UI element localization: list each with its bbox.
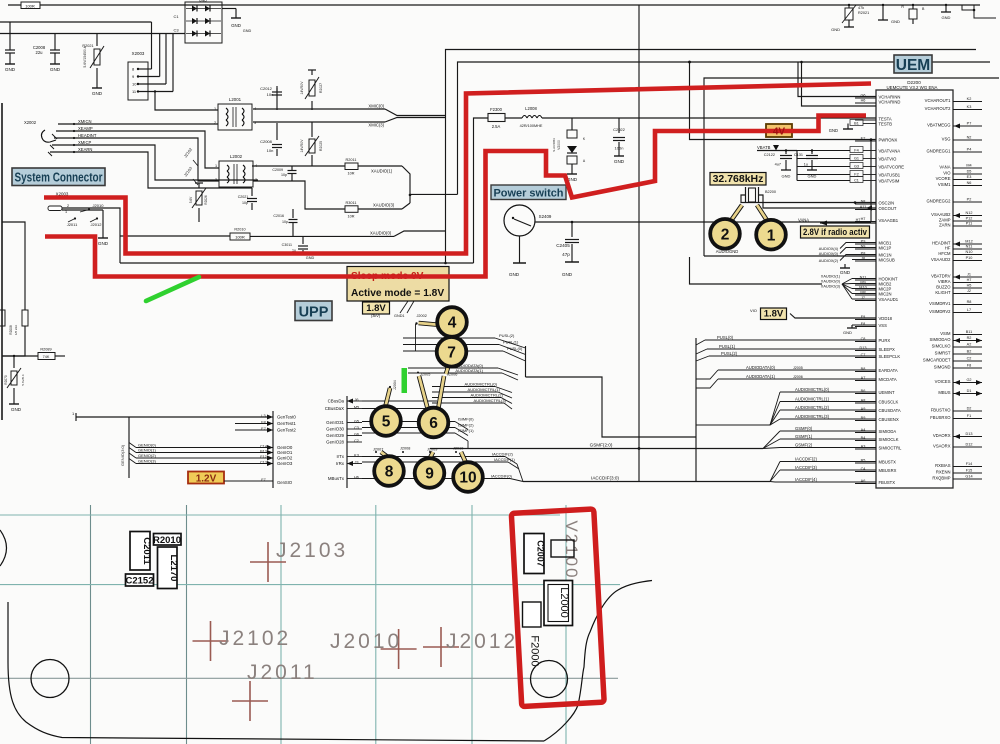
svg-text:RXBIAS: RXBIAS: [935, 463, 951, 468]
svg-text:VCHAROUT1: VCHAROUT1: [925, 98, 951, 103]
svg-text:N12: N12: [966, 211, 973, 215]
svg-text:G2: G2: [966, 378, 971, 382]
svg-text:UEMCUTE V3.2 WG ENA: UEMCUTE V3.2 WG ENA: [887, 85, 938, 90]
svg-text:1/8 22A: 1/8 22A: [14, 325, 18, 335]
wire IACCDIF rows upp: [362, 456, 505, 458]
svg-text:G1: G1: [854, 157, 859, 161]
svg-text:SIMRST: SIMRST: [935, 350, 951, 355]
svg-text:L7: L7: [967, 308, 971, 312]
svg-text:CBusDa: CBusDa: [328, 399, 345, 404]
svg-text:10p: 10p: [281, 173, 287, 177]
bus path to UEM side: [526, 377, 697, 437]
pcb board outline right curve: [544, 581, 652, 742]
pcb board outline bottom left: [8, 602, 544, 741]
ground x946: [945, 5, 947, 12]
svg-text:AUDIOX(4): AUDIOX(4): [819, 247, 839, 251]
pcb testpoint J2012: [423, 646, 459, 648]
svg-text:GND: GND: [243, 29, 252, 33]
svg-text:B1: B1: [854, 122, 859, 126]
svg-text:F2000: F2000: [529, 635, 541, 666]
svg-text:22u: 22u: [36, 50, 44, 55]
svg-text:SIMIODAO: SIMIODAO: [930, 337, 952, 342]
mic stub wires: [852, 242, 876, 244]
svg-text:CBUSENX: CBUSENX: [879, 417, 899, 422]
svg-text:GND: GND: [829, 128, 838, 133]
pcb part L2170: [158, 547, 178, 589]
svg-text:IACCDIF(0): IACCDIF(0): [491, 474, 513, 479]
junction rail62: [688, 61, 691, 64]
svg-text:J2103: J2103: [276, 539, 348, 562]
svg-text:OSC2IN: OSC2IN: [879, 200, 895, 205]
svg-text:C2122: C2122: [764, 153, 775, 157]
svg-text:VSG: VSG: [942, 136, 951, 141]
highlight red rounded zone: [511, 509, 604, 707]
svg-text:GSMF(2:0): GSMF(2:0): [590, 443, 613, 448]
svg-text:GND: GND: [942, 15, 951, 20]
svg-text:GenIO28: GenIO28: [326, 440, 344, 445]
ground stub x883: [882, 5, 884, 20]
svg-text:6: 6: [429, 415, 438, 432]
svg-text:GND: GND: [231, 23, 241, 28]
svg-text:XAUDIO(3): XAUDIO(3): [373, 203, 395, 208]
svg-text:SIMIOCTRL: SIMIOCTRL: [879, 445, 902, 450]
svg-text:CBUSCLK: CBUSCLK: [879, 399, 899, 404]
svg-text:VBATVIO: VBATVIO: [879, 156, 898, 161]
svg-text:VBATDRV: VBATDRV: [931, 273, 951, 278]
wire net XAUDIO1: [252, 165, 345, 167]
varistor R2070: [13, 356, 15, 368]
svg-text:C131: C131: [794, 153, 803, 157]
svg-text:C3011: C3011: [282, 243, 292, 247]
svg-text:IACCDIF(1): IACCDIF(1): [494, 457, 516, 462]
wire rail mid right y62: [458, 62, 991, 194]
svg-text:OSCOUT: OSCOUT: [879, 206, 897, 211]
svg-text:2: 2: [67, 204, 69, 208]
svg-text:J2009: J2009: [427, 448, 437, 452]
pcb part C2152: [126, 574, 154, 586]
wire VSS and ground: [852, 324, 876, 326]
svg-text:R3011: R3011: [346, 201, 357, 205]
svg-text:VSS: VSS: [879, 323, 888, 328]
svg-text:J2004: J2004: [393, 380, 397, 390]
svg-text:1u: 1u: [804, 163, 808, 167]
svg-text:P10: P10: [966, 256, 973, 260]
svg-text:7: 7: [447, 344, 456, 361]
svg-text:V2000: V2000: [557, 140, 561, 150]
svg-text:1: 1: [215, 164, 217, 168]
svg-text:10: 10: [132, 82, 137, 87]
label UEM: [894, 55, 932, 73]
svg-text:C2011: C2011: [141, 537, 152, 565]
svg-text:5.6V: 5.6V: [189, 196, 193, 203]
svg-text:RXENN: RXENN: [936, 469, 951, 474]
svg-text:FBUSTX: FBUSTX: [879, 480, 896, 485]
pcb part L2000: [544, 581, 573, 626]
wire GSMF trunk: [430, 448, 763, 450]
svg-text:Active mode = 1.8V: Active mode = 1.8V: [351, 288, 444, 299]
svg-text:F4: F4: [854, 149, 858, 153]
svg-text:C2007: C2007: [536, 540, 546, 567]
svg-text:XMIC(0): XMIC(0): [368, 104, 384, 109]
pcb testpoint J2011: [232, 700, 268, 702]
fuse F2300: [488, 114, 505, 122]
svg-text:KLIGHT: KLIGHT: [935, 290, 951, 295]
pcb part R2010: [154, 534, 182, 546]
pcb testpoint J2102: [193, 640, 229, 642]
inductor L2008: [522, 116, 527, 119]
uem outer boundary box: [704, 78, 999, 256]
transformer L2001: [218, 104, 252, 130]
svg-text:GENIO(1): GENIO(1): [138, 448, 156, 453]
svg-text:L2002: L2002: [230, 154, 243, 159]
svg-text:L2000: L2000: [558, 587, 570, 618]
svg-text:5: 5: [382, 414, 391, 431]
capacitor C2022 100n: [618, 118, 620, 133]
capacitor C2016 10p coupling: [292, 209, 294, 218]
svg-text:GNDREGG1: GNDREGG1: [927, 148, 952, 153]
capacitor C2122 4u7: [785, 151, 787, 155]
svg-text:VSAAUB2: VSAAUB2: [931, 212, 951, 217]
svg-text:1: 1: [65, 210, 67, 214]
svg-text:SIMGND: SIMGND: [934, 364, 951, 369]
svg-text:10R: 10R: [348, 172, 355, 176]
svg-text:R2089: R2089: [40, 348, 51, 352]
svg-text:TESTB: TESTB: [879, 121, 893, 126]
svg-text:2: 2: [215, 178, 217, 182]
svg-text:N6: N6: [967, 181, 972, 185]
svg-text:B11: B11: [966, 330, 972, 334]
svg-text:UEM: UEM: [896, 57, 930, 74]
svg-text:GSMF(2): GSMF(2): [795, 442, 813, 447]
svg-text:J2007: J2007: [373, 448, 383, 452]
label UPP: [295, 301, 332, 321]
ic UEM D2200 body: [876, 90, 953, 488]
svg-text:4V: 4V: [773, 127, 786, 138]
svg-text:10n: 10n: [267, 92, 274, 97]
svg-text:D1: D1: [967, 389, 972, 393]
svg-text:B13: B13: [260, 450, 267, 454]
ic UPP left edge: [346, 396, 348, 488]
pcb part C2011: [130, 532, 150, 571]
pcb testpoint J2103: [250, 561, 286, 563]
svg-text:AUDIOMICTRL(0): AUDIOMICTRL(0): [465, 382, 498, 387]
wire rail 3 left: [0, 33, 185, 35]
varistor R2025: [311, 122, 313, 137]
svg-text:SLEEPCLK: SLEEPCLK: [879, 354, 901, 359]
wire XAUDIO bus at UEM: [690, 257, 823, 284]
EMI diode array V2001: [185, 2, 222, 43]
svg-text:AUDIODATA(0): AUDIODATA(0): [746, 365, 776, 370]
svg-text:32.768kHz: 32.768kHz: [713, 173, 764, 185]
svg-text:F7: F7: [261, 478, 265, 482]
svg-text:1.8V: 1.8V: [764, 309, 784, 320]
svg-text:FBUSRXO: FBUSRXO: [930, 415, 951, 420]
highlight green slash: [146, 277, 199, 301]
svg-text:J1: J1: [967, 273, 971, 277]
svg-text:GND: GND: [509, 272, 520, 277]
wire VCHARINN step: [798, 62, 876, 97]
svg-text:M4: M4: [966, 164, 971, 168]
svg-text:A: A: [583, 159, 586, 163]
svg-text:R2010: R2010: [153, 535, 181, 546]
svg-text:VBATB: VBATB: [757, 145, 771, 150]
svg-text:MIC1P: MIC1P: [879, 245, 892, 250]
ground at diode array: [222, 8, 236, 10]
svg-text:J2010: J2010: [93, 203, 105, 208]
svg-text:IrTx: IrTx: [336, 454, 344, 459]
transformer L2002: [219, 161, 253, 187]
svg-text:PUSL(2): PUSL(2): [499, 333, 515, 338]
highlight red trace 1: [44, 84, 871, 254]
svg-text:MICSUB: MICSUB: [879, 257, 895, 262]
wire vertical x689 to PWRONX: [690, 62, 877, 140]
bus AUDIOMICTRL rows to UEM: [780, 391, 876, 393]
svg-text:ISIMF(2): ISIMF(2): [458, 423, 474, 428]
svg-text:R2: R2: [967, 336, 972, 340]
wire VCHARIND step: [802, 62, 877, 106]
svg-text:IACCDIF(2): IACCDIF(2): [492, 452, 514, 457]
callout circle 6: [419, 376, 428, 410]
svg-text:R: R: [901, 5, 904, 9]
wire ISIMF rows: [362, 421, 455, 423]
svg-text:ISIMF(1): ISIMF(1): [458, 428, 474, 433]
wire L2001 pin1 to X2002: [155, 92, 218, 111]
svg-text:F2300: F2300: [490, 107, 503, 112]
svg-text:VSAORX: VSAORX: [933, 443, 951, 448]
svg-text:1: 1: [767, 227, 776, 244]
crystal B2200 32.768kHz: [749, 188, 756, 202]
svg-text:PWRONX: PWRONX: [879, 137, 898, 142]
highlight red trace 2: [45, 116, 866, 277]
wire GenIO rows: [129, 443, 136, 448]
svg-text:P12: P12: [966, 217, 973, 221]
svg-text:GND1: GND1: [394, 314, 405, 318]
svg-text:ISIMF(0): ISIMF(0): [458, 417, 474, 422]
wire battery rail left edge: [1, 103, 3, 420]
wire AUDIODATA rows UPP: [408, 367, 498, 369]
svg-text:R2027: R2027: [319, 83, 323, 93]
svg-text:MBUS: MBUS: [938, 390, 950, 395]
svg-text:X2003: X2003: [132, 51, 145, 56]
svg-text:F2: F2: [854, 173, 858, 177]
svg-text:RXQBMP: RXQBMP: [932, 475, 950, 480]
svg-text:1.2V: 1.2V: [196, 473, 217, 484]
svg-text:XAUDIO(1): XAUDIO(1): [371, 169, 393, 174]
svg-text:N11: N11: [966, 245, 973, 249]
wire OSC2IN: [741, 195, 876, 203]
svg-text:11: 11: [132, 89, 137, 94]
svg-text:VIO: VIO: [943, 170, 951, 175]
svg-text:GND: GND: [5, 67, 16, 72]
svg-text:C2009: C2009: [272, 168, 283, 172]
wire PUSL rows UPP: [403, 337, 495, 339]
svg-text:F15: F15: [966, 469, 973, 473]
label 32.768kHz: [710, 173, 766, 186]
svg-text:MBusTx: MBusTx: [328, 476, 345, 481]
wire VDD18: [790, 314, 876, 319]
svg-text:R2021: R2021: [858, 11, 869, 15]
svg-text:GenSIO: GenSIO: [277, 480, 293, 485]
pcb hole in red zone: [531, 661, 568, 698]
svg-text:2: 2: [721, 226, 730, 243]
svg-text:VBATUSB1: VBATUSB1: [879, 172, 901, 177]
wire battery feed to fuse: [120, 262, 474, 264]
svg-text:VBATVCORE: VBATVCORE: [879, 164, 905, 169]
switch S2409: [504, 205, 535, 236]
svg-text:GND: GND: [782, 174, 791, 179]
svg-text:F12: F12: [260, 455, 267, 459]
resistor R2011 10R: [345, 163, 358, 170]
svg-text:R2070: R2070: [4, 375, 8, 385]
svg-text:BUZZO: BUZZO: [936, 284, 951, 289]
pcb grid horizontal lines: [0, 514, 560, 516]
svg-text:VANA: VANA: [939, 164, 950, 169]
svg-text:VSIM1: VSIM1: [938, 182, 951, 187]
label 1.8V right: [761, 308, 787, 320]
svg-text:VDAORX: VDAORX: [933, 433, 951, 438]
label 1.2V: [188, 472, 224, 484]
svg-text:42R/100MHE: 42R/100MHE: [520, 124, 543, 128]
capacitor C2009: [9, 22, 11, 50]
label 2.8V if radio activ: [801, 226, 870, 238]
svg-text:AUDIOMICTRL(2): AUDIOMICTRL(2): [795, 405, 830, 410]
svg-text:N2: N2: [967, 136, 972, 140]
svg-text:XAUDIO(0): XAUDIO(0): [370, 231, 392, 236]
corner wires top right: [962, 5, 974, 10]
svg-text:C13: C13: [260, 461, 267, 465]
svg-text:XEAMP: XEAMP: [78, 126, 93, 131]
svg-text:R2010: R2010: [234, 228, 245, 232]
wire bundle from X2002 up to rails: [151, 22, 153, 69]
svg-text:SIMCLKO: SIMCLKO: [932, 343, 952, 348]
svg-text:GND: GND: [891, 19, 900, 24]
svg-text:AUDIOMICTRL(0): AUDIOMICTRL(0): [795, 387, 830, 392]
svg-text:VSIMDRV1: VSIMDRV1: [929, 301, 951, 306]
svg-text:C3: C3: [173, 28, 179, 33]
resistor R2010 100R: [230, 233, 250, 240]
connector X2002: [128, 62, 148, 100]
wire VBAT pin bus: [796, 151, 798, 181]
svg-text:S2409: S2409: [539, 214, 552, 219]
svg-text:2.5A: 2.5A: [492, 124, 501, 129]
svg-text:GenIO31: GenIO31: [326, 420, 344, 425]
svg-text:R8: R8: [967, 300, 972, 304]
pcb hole bottom left: [31, 660, 69, 698]
svg-text:AUDIOX(0): AUDIOX(0): [819, 252, 839, 256]
wire net XAUDIO3: [253, 181, 345, 209]
svg-text:C2016: C2016: [273, 214, 284, 218]
diode V2000: [571, 118, 573, 130]
svg-text:47k: 47k: [858, 6, 864, 10]
svg-text:VSAAGB1: VSAAGB1: [879, 218, 899, 223]
svg-text:IACCDIF(3:0): IACCDIF(3:0): [591, 476, 619, 481]
svg-text:AUDIOMICTRL(2): AUDIOMICTRL(2): [471, 393, 504, 398]
svg-text:K2: K2: [967, 97, 972, 101]
svg-text:Power switch: Power switch: [494, 188, 564, 200]
label 4V box: [766, 124, 792, 137]
pcb testpoint J2010: [381, 648, 417, 650]
svg-text:GSMF(0): GSMF(0): [795, 426, 813, 431]
svg-text:GSMF(1): GSMF(1): [795, 434, 813, 439]
svg-text:UEMINT: UEMINT: [879, 390, 895, 395]
wire merge to x445: [385, 109, 446, 116]
svg-text:S.A/VDB3: S.A/VDB3: [552, 138, 556, 152]
capacitor C2012 10n: [276, 88, 278, 110]
wire VSAAGB1 VANA: [820, 222, 876, 224]
svg-text:J2102: J2102: [219, 627, 291, 650]
svg-text:VDD18: VDD18: [879, 316, 893, 321]
svg-text:CBusDaX: CBusDaX: [325, 406, 344, 411]
svg-text:10n: 10n: [267, 148, 274, 153]
svg-text:A2: A2: [967, 343, 972, 347]
svg-text:GenIO3: GenIO3: [277, 461, 293, 466]
svg-text:14V/50V: 14V/50V: [300, 139, 304, 153]
svg-text:10p: 10p: [242, 201, 248, 205]
svg-text:C2: C2: [967, 357, 972, 361]
callout circle 1: [757, 205, 768, 222]
wire F7 row: [224, 480, 273, 482]
svg-text:AUDIOMICTRL(1): AUDIOMICTRL(1): [468, 387, 501, 392]
label sleep active mode box: [347, 267, 449, 302]
svg-text:AUDIOMICTRL(3): AUDIOMICTRL(3): [474, 398, 507, 403]
wire long vertical x639: [638, 5, 640, 482]
svg-text:5.6V/1545/0.4: 5.6V/1545/0.4: [83, 46, 87, 67]
svg-text:PURX: PURX: [879, 338, 891, 343]
svg-text:9: 9: [132, 74, 135, 79]
ground mic: [844, 264, 846, 268]
callout circle 9: [429, 452, 433, 460]
label Power switch: [491, 185, 566, 200]
wire net XMIC3: [253, 121, 385, 123]
svg-text:R2025: R2025: [319, 141, 323, 151]
svg-text:PUSL(1): PUSL(1): [503, 340, 519, 345]
wire net XAUDIO0 row: [120, 235, 230, 237]
svg-text:J2008: J2008: [400, 447, 410, 451]
svg-text:XMICN: XMICN: [78, 119, 92, 124]
callout circle 4: [419, 323, 442, 325]
bus IACCDIF rows to UEM: [780, 461, 876, 463]
svg-text:N10: N10: [966, 250, 973, 254]
svg-text:R2008: R2008: [9, 325, 13, 335]
wire XAUDIO stubs to UEM mic2 pins: [852, 278, 876, 280]
svg-text:GND: GND: [199, 0, 207, 3]
svg-text:AUDIOX(2): AUDIOX(2): [819, 259, 839, 263]
svg-text:(3kV): (3kV): [371, 314, 381, 318]
wire X2003 pins: [62, 209, 103, 211]
svg-text:HEADINT: HEADINT: [78, 133, 97, 138]
svg-text:C2008: C2008: [260, 139, 273, 144]
svg-text:D12: D12: [966, 443, 973, 447]
capacitor C2014 10n: [276, 123, 278, 140]
svg-text:GND: GND: [11, 407, 22, 412]
svg-text:L2001: L2001: [229, 97, 242, 102]
svg-text:74K: 74K: [43, 355, 50, 359]
svg-text:GenIO30: GenIO30: [326, 427, 344, 432]
svg-text:4u7: 4u7: [775, 163, 781, 167]
svg-text:100R: 100R: [235, 234, 245, 239]
bus GSMF rows to UEM: [780, 430, 876, 432]
svg-text:B2200: B2200: [765, 190, 776, 194]
svg-text:P11: P11: [966, 222, 972, 226]
svg-text:C1: C1: [854, 179, 859, 183]
varistor R2020 5.6V: [96, 34, 98, 47]
svg-text:XAUDIO(3): XAUDIO(3): [821, 285, 841, 289]
wire link x410 to x457: [410, 193, 458, 195]
svg-text:GND: GND: [831, 27, 840, 32]
resistor R2008 network: [2, 222, 25, 310]
capacitor C2009b 10p coupling: [291, 166, 293, 170]
svg-text:8: 8: [385, 464, 394, 481]
